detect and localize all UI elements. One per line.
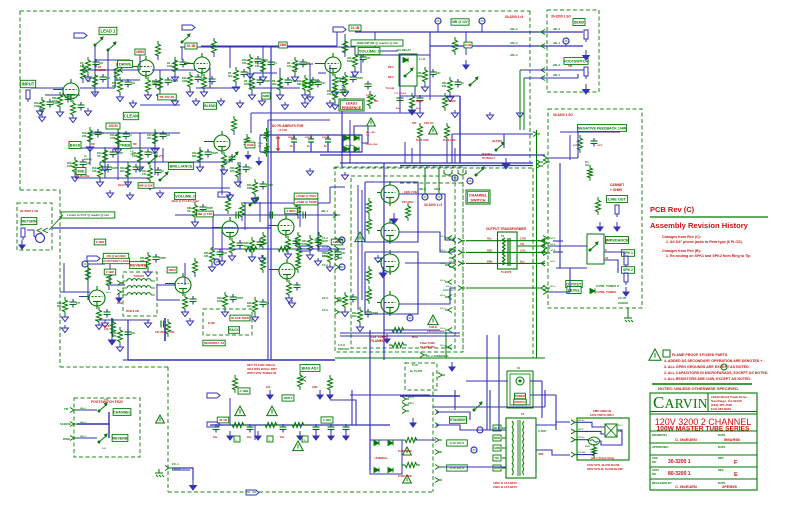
resistor R reverb <box>86 265 91 283</box>
svg-text:1M: 1M <box>87 80 90 83</box>
ground <box>187 89 194 97</box>
svg-text:RVB 8 AD: RVB 8 AD <box>126 309 139 313</box>
svg-text:R10: R10 <box>412 122 417 125</box>
resistor R13 <box>406 203 411 221</box>
connector pin HSL-3 <box>536 164 540 169</box>
ground <box>85 74 92 82</box>
ground <box>342 89 349 97</box>
svg-text:500PF: 500PF <box>321 240 329 243</box>
wire <box>519 70 521 130</box>
ground g3 <box>172 98 179 106</box>
connector pin HSL <box>541 44 545 49</box>
connector pin GC <box>541 286 545 291</box>
svg-text:1. Re-routing on SPK1 and SPK2: 1. Re-routing on SPK1 and SPK2 from Ring… <box>666 254 751 258</box>
svg-text:GC-n: GC-n <box>550 286 556 288</box>
svg-text:PRESENCE: PRESENCE <box>342 106 362 110</box>
connector <box>207 422 220 427</box>
node A <box>435 18 441 24</box>
svg-text:+5V RELAY: +5V RELAY <box>396 48 411 52</box>
svg-text:+70dB @ 500W: +70dB @ 500W <box>295 200 317 204</box>
resistor R33 <box>118 327 123 345</box>
wire <box>429 32 431 60</box>
wire <box>108 285 110 290</box>
wire <box>329 187 331 203</box>
node <box>471 447 477 453</box>
capacitor C4 <box>180 59 187 68</box>
resistor R <box>328 375 333 393</box>
wire <box>404 142 406 163</box>
wire <box>212 213 214 248</box>
svg-text:SPK 1: SPK 1 <box>623 251 633 255</box>
ground <box>222 309 229 317</box>
capacitor C31 <box>350 294 357 303</box>
resistor R-B <box>226 196 231 214</box>
wire <box>95 319 150 321</box>
svg-text:P4S: P4S <box>366 94 371 97</box>
diode D7 <box>374 468 379 473</box>
resistor R24 <box>253 179 258 197</box>
dashed enclosure output tubes inner <box>351 176 455 348</box>
label 16dB INP dB @ reactio @ tail <box>351 40 403 46</box>
ground <box>342 309 349 317</box>
resistor R9 <box>293 57 298 75</box>
svg-text:[xC-C (5mm) 5mm]: [xC-C (5mm) 5mm] <box>591 456 614 460</box>
capacitor bypass V2A <box>153 79 160 88</box>
svg-text:47K: 47K <box>287 65 292 68</box>
bus wire vertical main <box>270 46 272 360</box>
label 10-1B <box>185 43 197 49</box>
speaker wire BRN <box>466 262 545 264</box>
svg-text:100 IN: 100 IN <box>108 124 118 128</box>
connector pin GC <box>541 261 545 266</box>
capacitor C36 <box>430 69 437 78</box>
label BLK <box>493 425 501 431</box>
ground g18 <box>342 172 349 180</box>
test point jack <box>218 192 231 197</box>
capacitor C24 <box>260 181 267 190</box>
svg-text:022: 022 <box>131 332 136 335</box>
svg-text:68K: 68K <box>192 155 197 158</box>
connector pin HSL <box>541 76 545 81</box>
svg-text:230V H 15J-8Z70: 230V H 15J-8Z70 <box>493 485 517 489</box>
capacitor bypass V1B <box>340 76 347 85</box>
power transformer T1 <box>506 418 536 478</box>
svg-text:CHOKE: CHOKE <box>618 301 628 305</box>
connector pin GC-2x <box>571 437 575 442</box>
node <box>407 315 413 321</box>
wire <box>349 120 351 163</box>
connector pin power <box>435 465 439 470</box>
switch GLA <box>148 155 157 164</box>
wire hsl <box>524 77 548 79</box>
mains wire <box>486 335 488 430</box>
ground V6A <box>221 167 228 175</box>
svg-text:68K: 68K <box>57 305 62 308</box>
capacitor C13 <box>95 129 102 138</box>
node <box>82 261 88 267</box>
svg-text:b 1B3: b 1B3 <box>323 418 332 422</box>
wire <box>548 245 587 247</box>
ground <box>249 92 256 100</box>
wire grid V3B <box>268 225 274 227</box>
wire <box>162 148 164 162</box>
connector pin HSL-4 <box>536 160 540 165</box>
svg-text:B+ PLATE: B+ PLATE <box>410 369 423 373</box>
svg-text:HSL-6: HSL-6 <box>553 64 561 67</box>
connector pin GC-P <box>571 429 575 434</box>
resistor pot P1 drive <box>115 63 120 81</box>
ground g6 <box>237 100 244 108</box>
relay K1 <box>399 54 417 86</box>
svg-text:CC-n: CC-n <box>322 236 329 240</box>
svg-text:E: E <box>734 472 738 478</box>
dashed enclosure rear panel <box>548 109 642 308</box>
resistor R12 <box>353 52 358 70</box>
svg-text:2K2: 2K2 <box>352 315 357 318</box>
capacitor C4 <box>270 212 273 219</box>
wire loop pair1 <box>365 182 418 242</box>
svg-text:PCB Rev (C): PCB Rev (C) <box>650 205 695 214</box>
svg-text:IMPEDANCE: IMPEDANCE <box>606 238 629 242</box>
svg-text:250PF: 250PF <box>206 207 214 210</box>
resistor R <box>317 232 322 250</box>
switch <box>181 34 190 43</box>
capacitor C3x <box>308 135 314 152</box>
svg-text:TREB: TREB <box>120 143 131 147</box>
resistor R18 <box>73 157 78 175</box>
wire loop pair2 <box>365 252 418 314</box>
svg-text:16dB INP dB @ reactio @ tail: 16dB INP dB @ reactio @ tail <box>356 41 397 45</box>
svg-text:1K5: 1K5 <box>230 170 235 173</box>
diode <box>590 289 595 294</box>
svg-text:220K: 220K <box>182 80 188 83</box>
resistor plate V4B <box>107 271 112 289</box>
test point jack <box>87 256 100 261</box>
bus wire top return <box>430 45 583 47</box>
svg-text:GC-n: GC-n <box>440 263 446 265</box>
label Listen to PoT @ readin @ tail <box>61 212 115 218</box>
svg-text:047: 047 <box>86 162 91 165</box>
wire <box>503 134 505 148</box>
label BRILLIANCE <box>168 163 193 170</box>
svg-text:SUPPORT: SUPPORT <box>443 290 454 292</box>
tube V2A <box>134 56 154 79</box>
svg-text:INPUT: INPUT <box>22 82 35 87</box>
label +15dB @ 250V <box>294 193 318 199</box>
node <box>214 259 220 265</box>
resistor R25 <box>210 247 215 265</box>
svg-text:10K: 10K <box>242 62 247 65</box>
svg-text:STANDBY: STANDBY <box>450 418 467 422</box>
warning triangle <box>367 118 376 126</box>
capacitor C bias <box>247 424 254 433</box>
label PK 252.2K <box>158 94 176 100</box>
svg-text:047: 047 <box>201 77 206 80</box>
svg-text:C4B: C4B <box>465 43 472 47</box>
resistor R <box>443 93 448 111</box>
svg-text:1M50: 1M50 <box>136 50 144 54</box>
svg-text:S-H: S-H <box>102 448 106 450</box>
capacitor C27 <box>315 237 322 246</box>
svg-text:FUSE LINK: FUSE LINK <box>443 139 456 142</box>
svg-text:470K: 470K <box>110 137 116 140</box>
svg-text:OUTPUT: OUTPUT <box>566 282 582 286</box>
svg-text:BIAS ADJ: BIAS ADJ <box>302 366 319 370</box>
capacitor C28 <box>335 249 342 258</box>
capacitor C38 <box>200 204 207 213</box>
diode D3 <box>344 147 349 152</box>
svg-text:500PF: 500PF <box>261 59 269 62</box>
ground arrow <box>449 362 455 371</box>
resistor plate V4A <box>193 258 198 276</box>
resistor R4 <box>173 57 178 75</box>
resistor pot P4S <box>368 91 373 109</box>
wire grid V3A <box>212 227 218 229</box>
wire <box>233 130 235 135</box>
svg-text:80-3200 1: 80-3200 1 <box>668 471 691 477</box>
svg-text:SLEEVE: SLEEVE <box>60 422 71 426</box>
ground arrow <box>328 431 334 440</box>
resistor pot P1 <box>229 423 247 428</box>
warning triangle <box>355 232 365 242</box>
svg-text:GC-n: GC-n <box>408 402 414 405</box>
wire <box>70 147 160 149</box>
dashed enclosure SEND/FOOTSWITCH jacks <box>547 10 599 92</box>
wire filament <box>384 329 440 331</box>
channel switch label <box>466 190 490 204</box>
wire <box>60 291 90 293</box>
wire <box>336 32 338 46</box>
ground g1 <box>85 108 92 116</box>
svg-text:100W MASTER TUBE SERIES: 100W MASTER TUBE SERIES <box>657 426 750 433</box>
tube V6A <box>210 131 230 154</box>
ground <box>260 74 267 82</box>
wire <box>250 87 300 89</box>
wire <box>553 251 563 253</box>
chassis box <box>234 436 240 442</box>
wire <box>95 59 130 61</box>
wire plate pair 1 <box>399 194 455 240</box>
ground g23 <box>219 258 226 266</box>
capacitor bypass V1A <box>78 102 85 111</box>
output transformer T2 <box>498 232 518 269</box>
resistor R7B <box>389 343 407 348</box>
resistor R28 <box>328 247 333 265</box>
svg-text:CC-n: CC-n <box>322 245 329 249</box>
resistor plate V6A <box>232 116 237 134</box>
diode D1 <box>344 136 349 141</box>
capacitor C30 <box>230 294 237 303</box>
svg-text:0.10 104 S: 0.10 104 S <box>450 441 465 445</box>
wire <box>445 332 447 358</box>
capacitor C7 <box>268 59 275 68</box>
ground g15 <box>227 192 234 200</box>
ground <box>422 84 429 92</box>
connector pin GC <box>448 280 452 285</box>
svg-text:470K: 470K <box>152 83 158 86</box>
label REVERB <box>112 435 128 442</box>
label LEVEL <box>567 287 581 294</box>
connector pin GC-2B <box>571 452 575 457</box>
resistor R45 <box>333 85 338 103</box>
label TREB <box>119 142 131 149</box>
wire <box>296 63 313 65</box>
ground g27 <box>375 255 382 263</box>
diode D5 <box>374 441 379 446</box>
wire <box>89 133 91 165</box>
svg-text:RED: RED <box>494 436 500 440</box>
bus wire <box>320 154 545 156</box>
resistor R line2 <box>588 165 593 181</box>
wire <box>159 70 161 90</box>
resistor R7 <box>261 57 266 75</box>
resistor R10 <box>303 75 308 93</box>
ground V3B <box>285 251 292 259</box>
wire <box>123 359 128 361</box>
wire <box>502 467 506 469</box>
connector pin GC <box>448 328 452 333</box>
capacitor C6 <box>257 77 264 86</box>
wire <box>548 74 578 78</box>
svg-text:OUTACH: OUTACH <box>482 156 495 160</box>
switch <box>249 197 258 206</box>
switch <box>107 42 116 51</box>
connector pin CC <box>543 156 547 161</box>
wire <box>77 409 97 411</box>
green rail horizontal <box>335 357 545 359</box>
svg-text:330K: 330K <box>347 60 353 63</box>
wire <box>433 406 545 408</box>
resistor R27 <box>308 235 313 253</box>
ground <box>197 164 204 172</box>
capacitor bypass V4A <box>190 296 197 305</box>
ground V1B <box>332 89 339 97</box>
resistor cathode V3A <box>230 238 235 256</box>
svg-text:SLAVE 500R: SLAVE 500R <box>231 316 250 320</box>
svg-text:C-RO: C-RO <box>520 238 526 241</box>
tube power tube V9 <box>377 250 399 275</box>
jack SPK1 <box>624 256 628 268</box>
resistor R2x <box>264 143 269 157</box>
ground g28 <box>417 110 424 118</box>
connector pin CC <box>452 247 456 252</box>
wire <box>82 78 84 83</box>
resistor fuse F2 <box>402 463 420 468</box>
svg-text:2. ALL CAPACITORS IN MICROFAR: 2. ALL CAPACITORS IN MICROFARADS, EXCEPT… <box>664 371 768 375</box>
ground V4B <box>96 322 103 330</box>
wire <box>154 133 156 175</box>
tube V4A <box>171 273 191 296</box>
wire <box>127 320 129 360</box>
resistor fuse F1 <box>402 438 420 443</box>
svg-text:+5dB5Dxx: +5dB5Dxx <box>374 456 388 460</box>
svg-text:GC-x: GC-x <box>106 283 112 285</box>
capacitor C34 <box>70 299 77 308</box>
resistor R44 <box>308 77 313 95</box>
resistor R <box>296 232 301 250</box>
svg-text:10k: 10k <box>585 164 590 167</box>
wire <box>399 88 401 113</box>
wire <box>30 87 63 89</box>
label 2 1BK <box>104 269 116 275</box>
heater wire <box>340 335 460 337</box>
ground g22 <box>187 318 194 326</box>
ground <box>97 179 104 187</box>
connector pin B+ <box>438 373 442 378</box>
label BIAS ADJ <box>300 365 320 372</box>
svg-text:22U: 22U <box>321 82 326 85</box>
node <box>452 175 458 181</box>
capacitor C10 <box>397 95 404 104</box>
wire <box>297 214 299 219</box>
connector pin GC <box>117 290 121 295</box>
svg-text:RED: RED <box>487 250 492 253</box>
svg-text:HxxxDxx: HxxxDxx <box>345 145 355 147</box>
svg-text:22u: 22u <box>213 436 218 439</box>
bridge rectifier D-x <box>343 135 362 152</box>
resistor cathode V1B <box>333 74 338 92</box>
connector pin GC <box>448 250 452 255</box>
capacitor C17 <box>160 131 167 140</box>
resistor R29 <box>253 297 258 315</box>
switch <box>469 77 478 86</box>
svg-text:100K: 100K <box>34 105 40 108</box>
wire <box>481 24 483 32</box>
svg-text:GRN: GRN <box>494 446 500 450</box>
capacitor C12 <box>360 54 367 63</box>
svg-text:DRAWN BY: DRAWN BY <box>652 433 667 437</box>
label 0.10 104 S <box>447 465 468 471</box>
wire <box>156 285 158 300</box>
svg-text:16M: 16M <box>280 43 287 47</box>
svg-text:HSL-2: HSL-2 <box>510 27 518 31</box>
svg-text:22u: 22u <box>247 436 252 439</box>
svg-text:REV:: REV: <box>718 468 724 472</box>
label MB @ 12K <box>138 183 154 189</box>
wire <box>419 140 421 163</box>
resistor R26 <box>250 237 255 255</box>
svg-text:C-RAY: C-RAY <box>538 429 547 433</box>
ground <box>357 324 364 332</box>
dashed enclosure center pcb top <box>333 167 533 169</box>
power input module <box>577 418 629 460</box>
capacitor C25 <box>217 249 224 258</box>
connector pin CC <box>543 286 547 291</box>
svg-text:GC-n: GC-n <box>440 308 446 310</box>
wire <box>210 248 345 250</box>
rule <box>650 216 768 218</box>
wire <box>548 157 578 159</box>
svg-text:100LB: 100LB <box>429 325 437 329</box>
svg-text:R-B: R-B <box>573 145 577 147</box>
label H1 NUTDAN 5 LOAD <box>103 258 130 263</box>
svg-text:GC-9x: GC-9x <box>578 420 585 422</box>
svg-text:FUSE LINK: FUSE LINK <box>366 144 378 146</box>
earth ground <box>624 314 633 322</box>
svg-text:HSL4: HSL4 <box>434 188 441 191</box>
diode CR2 <box>403 58 408 63</box>
ground <box>249 254 256 262</box>
ground g4 <box>193 98 200 106</box>
svg-text:4K7: 4K7 <box>247 305 252 308</box>
capacitor C20 <box>133 164 140 173</box>
wire <box>560 131 620 133</box>
ground <box>307 94 314 102</box>
resistor R30 <box>223 292 228 310</box>
svg-text:10-1B: 10-1B <box>187 44 196 48</box>
connector pin CC <box>335 265 339 270</box>
capacitor C2 <box>100 74 107 83</box>
